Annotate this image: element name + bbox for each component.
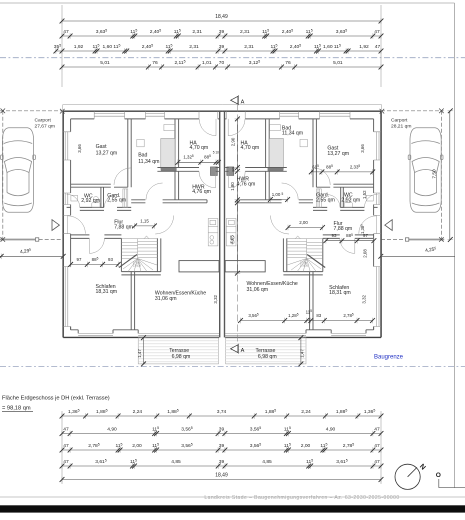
top dimension block extension lines [61,5,63,87]
north arrow compass [395,463,426,489]
terrace depth dim right 1,47 [300,338,302,364]
site boundary dashed line top [0,57,465,59]
section marker A top [231,96,238,104]
svg-text:2,55 qm: 2,55 qm [316,198,335,204]
svg-text:5,01: 5,01 [333,60,343,66]
dimension row top 2 [60,29,384,39]
interior wall Schlafen/Wohnen [131,272,134,330]
sink WC [71,195,78,201]
svg-text:47: 47 [63,443,69,449]
svg-text:1,92: 1,92 [359,44,369,50]
svg-text:1,60 115: 1,60 115 [323,44,341,50]
dark shaft cap [161,168,177,172]
svg-text:39: 39 [219,44,225,50]
interior wall Flur bottom [71,235,122,239]
svg-text:93: 93 [108,257,113,262]
svg-text:13,27 qm: 13,27 qm [96,151,118,157]
black footer bar [0,505,465,512]
svg-text:4,90: 4,90 [326,427,336,433]
svg-text:11,34 qm: 11,34 qm [282,131,303,137]
svg-text:7,88 qm: 7,88 qm [114,225,133,231]
door Wohnen swing [155,216,174,235]
terrace outline [138,338,218,364]
svg-text:2,08: 2,08 [362,249,367,258]
svg-text:Carport: Carport [35,118,52,124]
terrace glass door south [138,333,219,335]
east marker O [436,472,465,488]
svg-text:47: 47 [374,427,380,433]
svg-text:39: 39 [219,459,225,465]
svg-text:2,31: 2,31 [240,29,250,35]
svg-text:1,15: 1,15 [140,218,149,223]
window south Schlafen [78,333,113,335]
stair up arrow [119,255,137,268]
svg-text:Gast: Gast [96,144,108,150]
svg-text:4,05: 4,05 [229,235,234,244]
dimension row top total 18,49 [60,14,384,24]
svg-text:4,90: 4,90 [107,427,117,433]
svg-text:2,00: 2,00 [299,220,308,225]
interior dim Flur right 2,00 [288,227,323,229]
page right border [454,3,456,488]
svg-text:4,85: 4,85 [171,459,181,465]
svg-text:6,98 qm: 6,98 qm [172,354,191,360]
svg-text:47: 47 [63,459,69,465]
kitchen counter [208,219,218,246]
svg-text:17,6/26: 17,6/26 [133,265,142,268]
interior wall HWR bottom [179,200,207,203]
exterior wall bottom (south) [63,336,219,338]
site boundary dashed line bottom (Baugrenze) [0,366,465,368]
bottom dimension block extension lines [61,411,63,484]
door HWR swing [199,171,216,188]
interior dim Gast right [311,171,374,173]
svg-text:1,47: 1,47 [137,349,142,358]
svg-text:3,32: 3,32 [213,294,218,303]
door Gard swing [104,195,117,208]
sink Bad [137,139,144,146]
car in right carport [408,128,443,213]
carport post left [35,238,38,241]
right distance line 4,25.5 [381,255,455,257]
svg-text:97: 97 [77,257,82,262]
window west WC [63,193,70,205]
window north Bad [146,111,165,119]
svg-text:1,80: 1,80 [230,182,235,191]
exterior door HA (north) with swing [199,111,218,119]
left house geometry [52,105,222,364]
car in left carport [1,128,36,213]
page top border [0,2,455,4]
interior wall Bad/HA [175,119,179,200]
svg-text:2,31: 2,31 [189,44,199,50]
svg-text:Bad: Bad [138,153,147,159]
svg-text:3,66: 3,66 [77,144,82,153]
svg-text:1,47: 1,47 [300,349,305,358]
svg-text:1,60 115: 1,60 115 [103,44,121,50]
interior dim Flur left 1,15 [135,225,155,227]
svg-text:2,24: 2,24 [133,409,143,415]
svg-text:2,92 qm: 2,92 qm [81,198,100,204]
svg-text:2,31: 2,31 [244,44,254,50]
kitchen wall stub [179,261,219,272]
svg-text:2,00: 2,00 [132,443,142,449]
door Gast swing [114,168,131,185]
window west Schlafen [63,267,70,327]
svg-text:39: 39 [219,29,225,35]
left distance line 4,29.5 [0,255,63,257]
svg-text:Carport: Carport [391,118,408,124]
interior wall HA/HWR [157,168,219,172]
section line A-A [237,105,239,345]
svg-text:11,34 qm: 11,34 qm [138,159,159,165]
exterior wall left inner face segments [70,119,72,330]
dimension row bottom A [60,409,384,419]
stair treads [121,238,157,258]
interior dim kitchen right 1,00 [270,199,287,201]
right house geometry (mirrored) [222,105,392,364]
shaft block Bad [161,139,175,170]
carport left (dashed outline) [0,109,65,242]
dimension row top 4 [60,60,384,70]
entrance marker triangle [52,220,59,231]
svg-text:28,21 qm: 28,21 qm [391,124,411,130]
svg-text:5,01: 5,01 [100,60,110,66]
dimension row top 3 [54,44,384,54]
door WC swing [67,194,80,207]
svg-text:47: 47 [374,459,380,465]
svg-text:13,27 qm: 13,27 qm [327,151,349,157]
svg-text:4,76 qm: 4,76 qm [237,181,256,187]
svg-text:Landkreis Stade – Baugenehmigu: Landkreis Stade – Baugenehmigungsverfahr… [204,495,399,501]
svg-text:18,31 qm: 18,31 qm [96,289,118,295]
svg-text:1,52: 1,52 [362,190,367,199]
svg-text:Baugrenze: Baugrenze [374,355,404,361]
svg-text:= 98,18 qm: = 98,18 qm [2,406,31,412]
terrace depth dim left 1,47 [143,338,145,364]
svg-text:93: 93 [332,233,337,238]
dimension row bottom D [60,459,384,469]
svg-text:2,24: 2,24 [301,409,311,415]
section marker A bottom [231,345,238,353]
interior dim right house 93 88 97 [326,240,374,242]
svg-text:47: 47 [374,443,380,449]
svg-text:A: A [241,99,245,105]
interior wall WC/Gard [101,187,104,207]
separator line [0,496,465,498]
svg-text:3,74: 3,74 [217,409,227,415]
svg-text:2,55 qm: 2,55 qm [107,198,126,204]
carport depth dimension 7,50 [449,111,451,240]
wardrobe Gard [123,189,128,208]
svg-text:27,67 qm: 27,67 qm [35,124,55,130]
svg-text:47: 47 [375,44,381,50]
svg-text:7,50: 7,50 [431,169,437,179]
carport post right [405,238,408,241]
svg-text:1,01: 1,01 [202,60,212,66]
svg-text:47: 47 [63,29,69,35]
dimension row bottom C [60,443,384,453]
svg-text:39: 39 [219,427,225,433]
svg-text:A: A [241,348,245,354]
toilet WC [92,203,100,208]
svg-text:Fläche Erdgeschoss je DH (exkl: Fläche Erdgeschoss je DH (exkl. Terrasse… [2,396,110,402]
svg-text:47: 47 [374,29,380,35]
svg-text:2,90: 2,90 [231,137,236,146]
svg-text:2,31: 2,31 [192,29,202,35]
svg-text:31,06 qm: 31,06 qm [247,287,269,293]
interior dim HA left [178,161,220,163]
svg-text:1,92: 1,92 [74,44,84,50]
exterior wall top (north) outer face [63,110,222,112]
svg-text:83: 83 [316,313,321,318]
svg-text:39: 39 [219,443,225,449]
svg-text:7,88 qm: 7,88 qm [334,226,353,232]
terrace decking hatch [138,341,218,362]
svg-text:76: 76 [152,60,158,66]
svg-text:4,70 qm: 4,70 qm [190,145,209,151]
svg-text:3,66: 3,66 [360,144,365,153]
dimension row bottom B [60,426,384,436]
stair enclosure [120,238,122,271]
svg-text:18,49: 18,49 [215,472,228,478]
svg-text:47: 47 [63,427,69,433]
door Bad swing [146,183,163,200]
svg-text:18,31 qm: 18,31 qm [329,290,351,296]
svg-text:76: 76 [285,60,291,66]
svg-text:5 10: 5 10 [213,151,219,155]
svg-text:31,06 qm: 31,06 qm [155,296,177,302]
small box above shaft [164,125,175,131]
svg-text:2,92 qm: 2,92 qm [341,198,360,204]
svg-text:2,00: 2,00 [301,443,311,449]
interior wall WC/Gard bottom [67,207,132,210]
interior dim Schlafen left 97 88 93 [71,263,119,265]
interior wall Bad bottom [131,200,178,203]
svg-text:6,98 qm: 6,98 qm [258,354,277,360]
window west Gast [63,132,70,160]
exterior wall top inner face segments [71,118,219,120]
svg-text:O: O [436,472,441,479]
carport right (dashed outline) [380,109,445,242]
interior wall Gast bottom [71,184,128,187]
roof overhang contour [63,105,223,338]
window north Gast [94,111,124,119]
door Schlafen swing [89,238,104,253]
dimension row bottom total 18,49 [60,472,384,482]
shaft block at party wall [210,167,217,176]
vertical dim chain right house at section line [236,119,238,273]
entrance door west with swing [63,215,70,233]
svg-text:4,70 qm: 4,70 qm [241,145,260,151]
exterior wall left (west) outer face [62,111,64,337]
svg-text:3,32: 3,32 [361,294,366,303]
svg-text:17,6/26: 17,6/26 [300,265,309,268]
interior bottom dim row right [241,320,373,322]
svg-text:4,85: 4,85 [262,459,272,465]
svg-text:18,49: 18,49 [215,14,228,20]
svg-text:4,76 qm: 4,76 qm [192,189,211,195]
interior wall Gast/Bad [128,119,131,187]
svg-text:70: 70 [219,60,225,66]
party wall between the two houses [219,111,220,337]
